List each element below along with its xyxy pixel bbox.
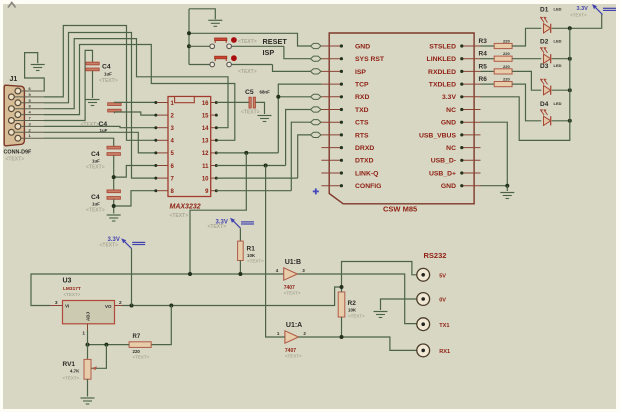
svg-text:3.3V: 3.3V	[577, 6, 589, 12]
svg-text:RXDLED: RXDLED	[428, 69, 456, 76]
svg-text:1uF: 1uF	[100, 128, 108, 133]
svg-text:USB_D-: USB_D-	[431, 158, 456, 165]
svg-text:R4: R4	[479, 51, 488, 58]
svg-text:CSW M85: CSW M85	[383, 205, 417, 214]
svg-text:<TEXT>: <TEXT>	[6, 157, 25, 163]
svg-text:GND: GND	[355, 43, 370, 50]
svg-text:CONFIG: CONFIG	[355, 183, 381, 190]
svg-text:220: 220	[503, 77, 510, 82]
svg-text:U1:B: U1:B	[285, 259, 301, 266]
svg-text:GND: GND	[441, 183, 456, 190]
svg-text:TXDLED: TXDLED	[429, 82, 456, 89]
svg-text:LED: LED	[554, 6, 562, 11]
svg-text:220: 220	[503, 64, 510, 69]
svg-text:<TEXT>: <TEXT>	[63, 376, 80, 381]
svg-text:LED: LED	[554, 101, 562, 106]
svg-text:VO: VO	[105, 304, 112, 309]
svg-text:DTXD: DTXD	[355, 158, 374, 165]
svg-text:C4: C4	[91, 194, 100, 201]
svg-text:MAX3232: MAX3232	[170, 204, 201, 211]
svg-text:<TEXT>: <TEXT>	[348, 314, 365, 319]
svg-text:USB_VBUS: USB_VBUS	[419, 132, 456, 139]
svg-text:NC: NC	[446, 145, 456, 152]
svg-text:CONN-D9F: CONN-D9F	[4, 150, 33, 156]
svg-text:10: 10	[202, 176, 209, 182]
svg-text:1uF: 1uF	[92, 202, 100, 207]
svg-text:<TEXT>: <TEXT>	[86, 165, 105, 171]
svg-text:LINK-Q: LINK-Q	[355, 170, 378, 177]
svg-text:1: 1	[82, 331, 85, 337]
svg-text:11: 11	[202, 164, 209, 170]
svg-text:TXD: TXD	[355, 107, 369, 114]
svg-text:CTS: CTS	[355, 120, 369, 127]
svg-text:R3: R3	[479, 38, 488, 45]
svg-text:ADJ: ADJ	[86, 312, 91, 321]
svg-text:LINKLED: LINKLED	[427, 56, 457, 63]
svg-text:RV1: RV1	[63, 361, 76, 368]
svg-text:220: 220	[503, 39, 510, 44]
svg-text:D2: D2	[540, 39, 549, 46]
svg-text:12: 12	[202, 151, 209, 157]
svg-text:R6: R6	[479, 76, 488, 83]
svg-text:<TEXT>: <TEXT>	[86, 208, 105, 214]
svg-text:GND: GND	[441, 120, 456, 127]
svg-text:R1: R1	[247, 246, 256, 253]
svg-text:13: 13	[202, 139, 209, 145]
svg-text:DRXD: DRXD	[355, 145, 374, 152]
svg-text:D1: D1	[540, 6, 549, 13]
svg-text:<TEXT>: <TEXT>	[247, 259, 264, 264]
svg-text:220: 220	[133, 349, 141, 354]
svg-text:<TEXT>: <TEXT>	[284, 291, 301, 296]
svg-text:<TEXT>: <TEXT>	[99, 78, 118, 84]
svg-text:LED: LED	[554, 39, 562, 44]
svg-text:<TEXT>: <TEXT>	[100, 243, 119, 249]
svg-text:U1:A: U1:A	[286, 322, 302, 329]
svg-text:RTS: RTS	[355, 132, 369, 139]
svg-text:D4: D4	[540, 101, 549, 108]
svg-text:5V: 5V	[439, 273, 446, 279]
svg-text:1uF: 1uF	[92, 159, 100, 164]
svg-text:C4: C4	[99, 121, 108, 128]
svg-text:10K: 10K	[348, 308, 357, 313]
svg-text:<TEXT>: <TEXT>	[285, 354, 302, 359]
svg-text:C4: C4	[91, 151, 100, 158]
svg-text:RS232: RS232	[424, 251, 447, 260]
svg-text:15: 15	[202, 113, 209, 119]
svg-text:0V: 0V	[439, 298, 446, 304]
svg-text:<TEXT>: <TEXT>	[208, 224, 227, 230]
svg-text:220: 220	[503, 51, 510, 56]
svg-text:<TEXT>: <TEXT>	[570, 13, 587, 18]
svg-text:ISP: ISP	[263, 48, 275, 57]
svg-text:ISP: ISP	[355, 69, 366, 76]
svg-text:R5: R5	[479, 63, 488, 70]
svg-text:3.3V: 3.3V	[442, 94, 456, 101]
svg-text:<TEXT>: <TEXT>	[241, 110, 260, 116]
svg-text:RX1: RX1	[439, 349, 450, 355]
svg-text:68nF: 68nF	[260, 90, 271, 95]
svg-text:<TEXT>: <TEXT>	[133, 355, 150, 360]
svg-text:STSLED: STSLED	[429, 43, 456, 50]
svg-text:U3: U3	[63, 278, 72, 285]
svg-text:RXD: RXD	[355, 94, 369, 101]
svg-text:C4: C4	[102, 64, 111, 71]
svg-text:D3: D3	[540, 63, 549, 70]
svg-text:R2: R2	[348, 300, 357, 307]
svg-text:R7: R7	[133, 334, 141, 340]
svg-text:<TEXT>: <TEXT>	[238, 69, 257, 75]
svg-text:NC: NC	[446, 107, 456, 114]
svg-text:<TEXT>: <TEXT>	[64, 292, 81, 297]
svg-text:J1: J1	[10, 76, 18, 83]
svg-text:TCP: TCP	[355, 82, 369, 89]
svg-text:VI: VI	[65, 303, 69, 308]
svg-text:LED: LED	[554, 63, 562, 68]
svg-text:SYS RST: SYS RST	[355, 56, 385, 63]
svg-text:10K: 10K	[247, 253, 256, 258]
svg-text:1uF: 1uF	[104, 72, 112, 77]
svg-text:16: 16	[202, 101, 209, 107]
svg-text:14: 14	[202, 126, 209, 132]
svg-text:<TEXT>: <TEXT>	[81, 122, 100, 128]
svg-text:4.7K: 4.7K	[70, 369, 80, 374]
svg-text:RESET: RESET	[263, 37, 288, 46]
svg-text:<TEXT>: <TEXT>	[170, 213, 189, 219]
svg-text:TX1: TX1	[439, 323, 449, 329]
svg-text:<TEXT>: <TEXT>	[238, 39, 257, 45]
svg-text:USB_D+: USB_D+	[429, 170, 456, 177]
svg-text:C5: C5	[245, 89, 254, 96]
